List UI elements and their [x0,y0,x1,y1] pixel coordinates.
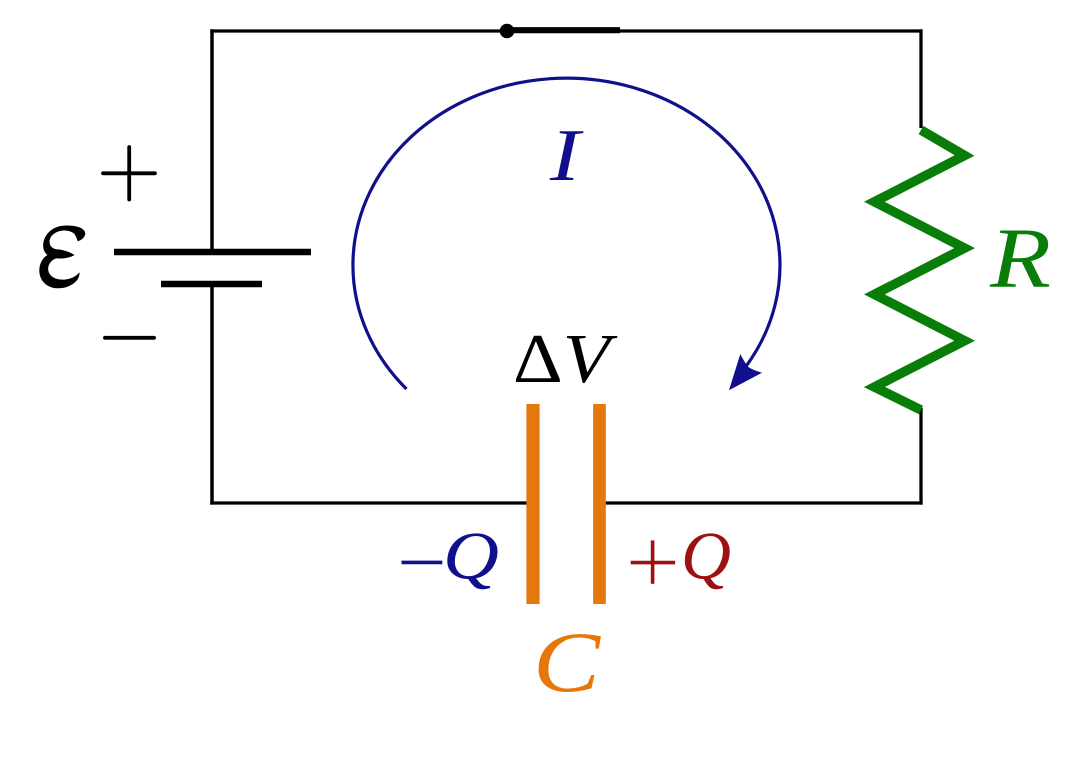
battery polarity label + [103,147,155,200]
svg-text:I: I [549,115,584,197]
svg-text:Q: Q [443,518,499,594]
svg-text:ΔV: ΔV [513,321,618,398]
capacitor C: left plate [526,404,539,604]
battery ℰ: short negative plate [161,281,262,288]
wire: bottom horizontal right [606,501,923,504]
wire: top horizontal [210,29,921,32]
charge label +Q (right plate, dark red) [631,518,731,594]
node: junction dot on top wire [500,24,515,39]
resistor R (green zigzag) [874,130,964,410]
wire: right vertical top (to resistor) [919,29,922,128]
label ℰ (EMF script E) [39,226,85,289]
svg-text:R: R [989,210,1051,306]
svg-text:C: C [533,614,602,710]
wire: right vertical bottom (from resistor) [919,408,922,505]
current loop arc I (navy, clockwise) [353,78,780,389]
wire: battery positive lead (top-left vertical) [210,29,214,249]
capacitor C: right plate [593,404,606,604]
battery polarity label − [105,336,154,340]
current arrowhead [729,354,762,390]
battery ℰ: long positive plate [114,249,311,256]
svg-text:Q: Q [681,518,731,594]
switch blade (thick closed segment on top wire) [513,27,620,33]
wire: battery negative lead (bottom-left vertical) [210,287,214,505]
charge label −Q (left plate, navy) [402,518,500,594]
wire: bottom horizontal left [210,501,527,504]
